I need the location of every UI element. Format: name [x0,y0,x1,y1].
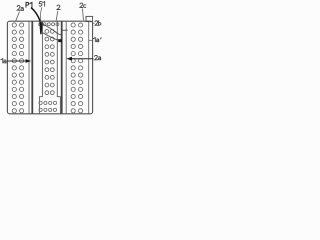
leader arrow 1a [7,60,26,62]
tab 2b top right [86,16,93,21]
jumper A end tick [62,29,68,31]
hole grid bottom connector [39,101,57,111]
label 1a left [1,59,6,63]
label 2c [80,3,86,7]
leader 2b [93,22,95,24]
jumper wire A [42,24,62,36]
label 51 [39,2,44,7]
board outline [7,21,92,114]
label P1 [26,2,32,7]
label 2b [95,21,101,26]
right strip right edge [88,21,90,113]
leader P1 [31,8,40,22]
label 2 [57,5,60,10]
hole grid center strip [45,30,54,95]
label 2a [17,6,23,11]
leader 51 [40,7,42,20]
left strip right edge [28,21,30,113]
hole grid right strip [71,23,83,113]
jumper wire B [42,33,58,41]
leader 1a' [89,39,93,41]
hole grid left strip [12,23,24,113]
jumper B plug [58,39,62,42]
channel 1 [31,21,33,113]
center strip right edge [57,21,60,113]
label 2a' right [95,55,101,59]
right strip left edge [65,21,67,113]
label 1a' [93,38,101,42]
pin P1 wedge [39,22,43,35]
center strip left edge [39,21,42,113]
leader 2c [82,9,85,21]
small hole row top center [39,23,59,26]
leader 2 [56,11,58,21]
leader arrow 2a' [72,58,94,60]
leader 2a [16,12,20,21]
channel 2 [61,21,63,113]
